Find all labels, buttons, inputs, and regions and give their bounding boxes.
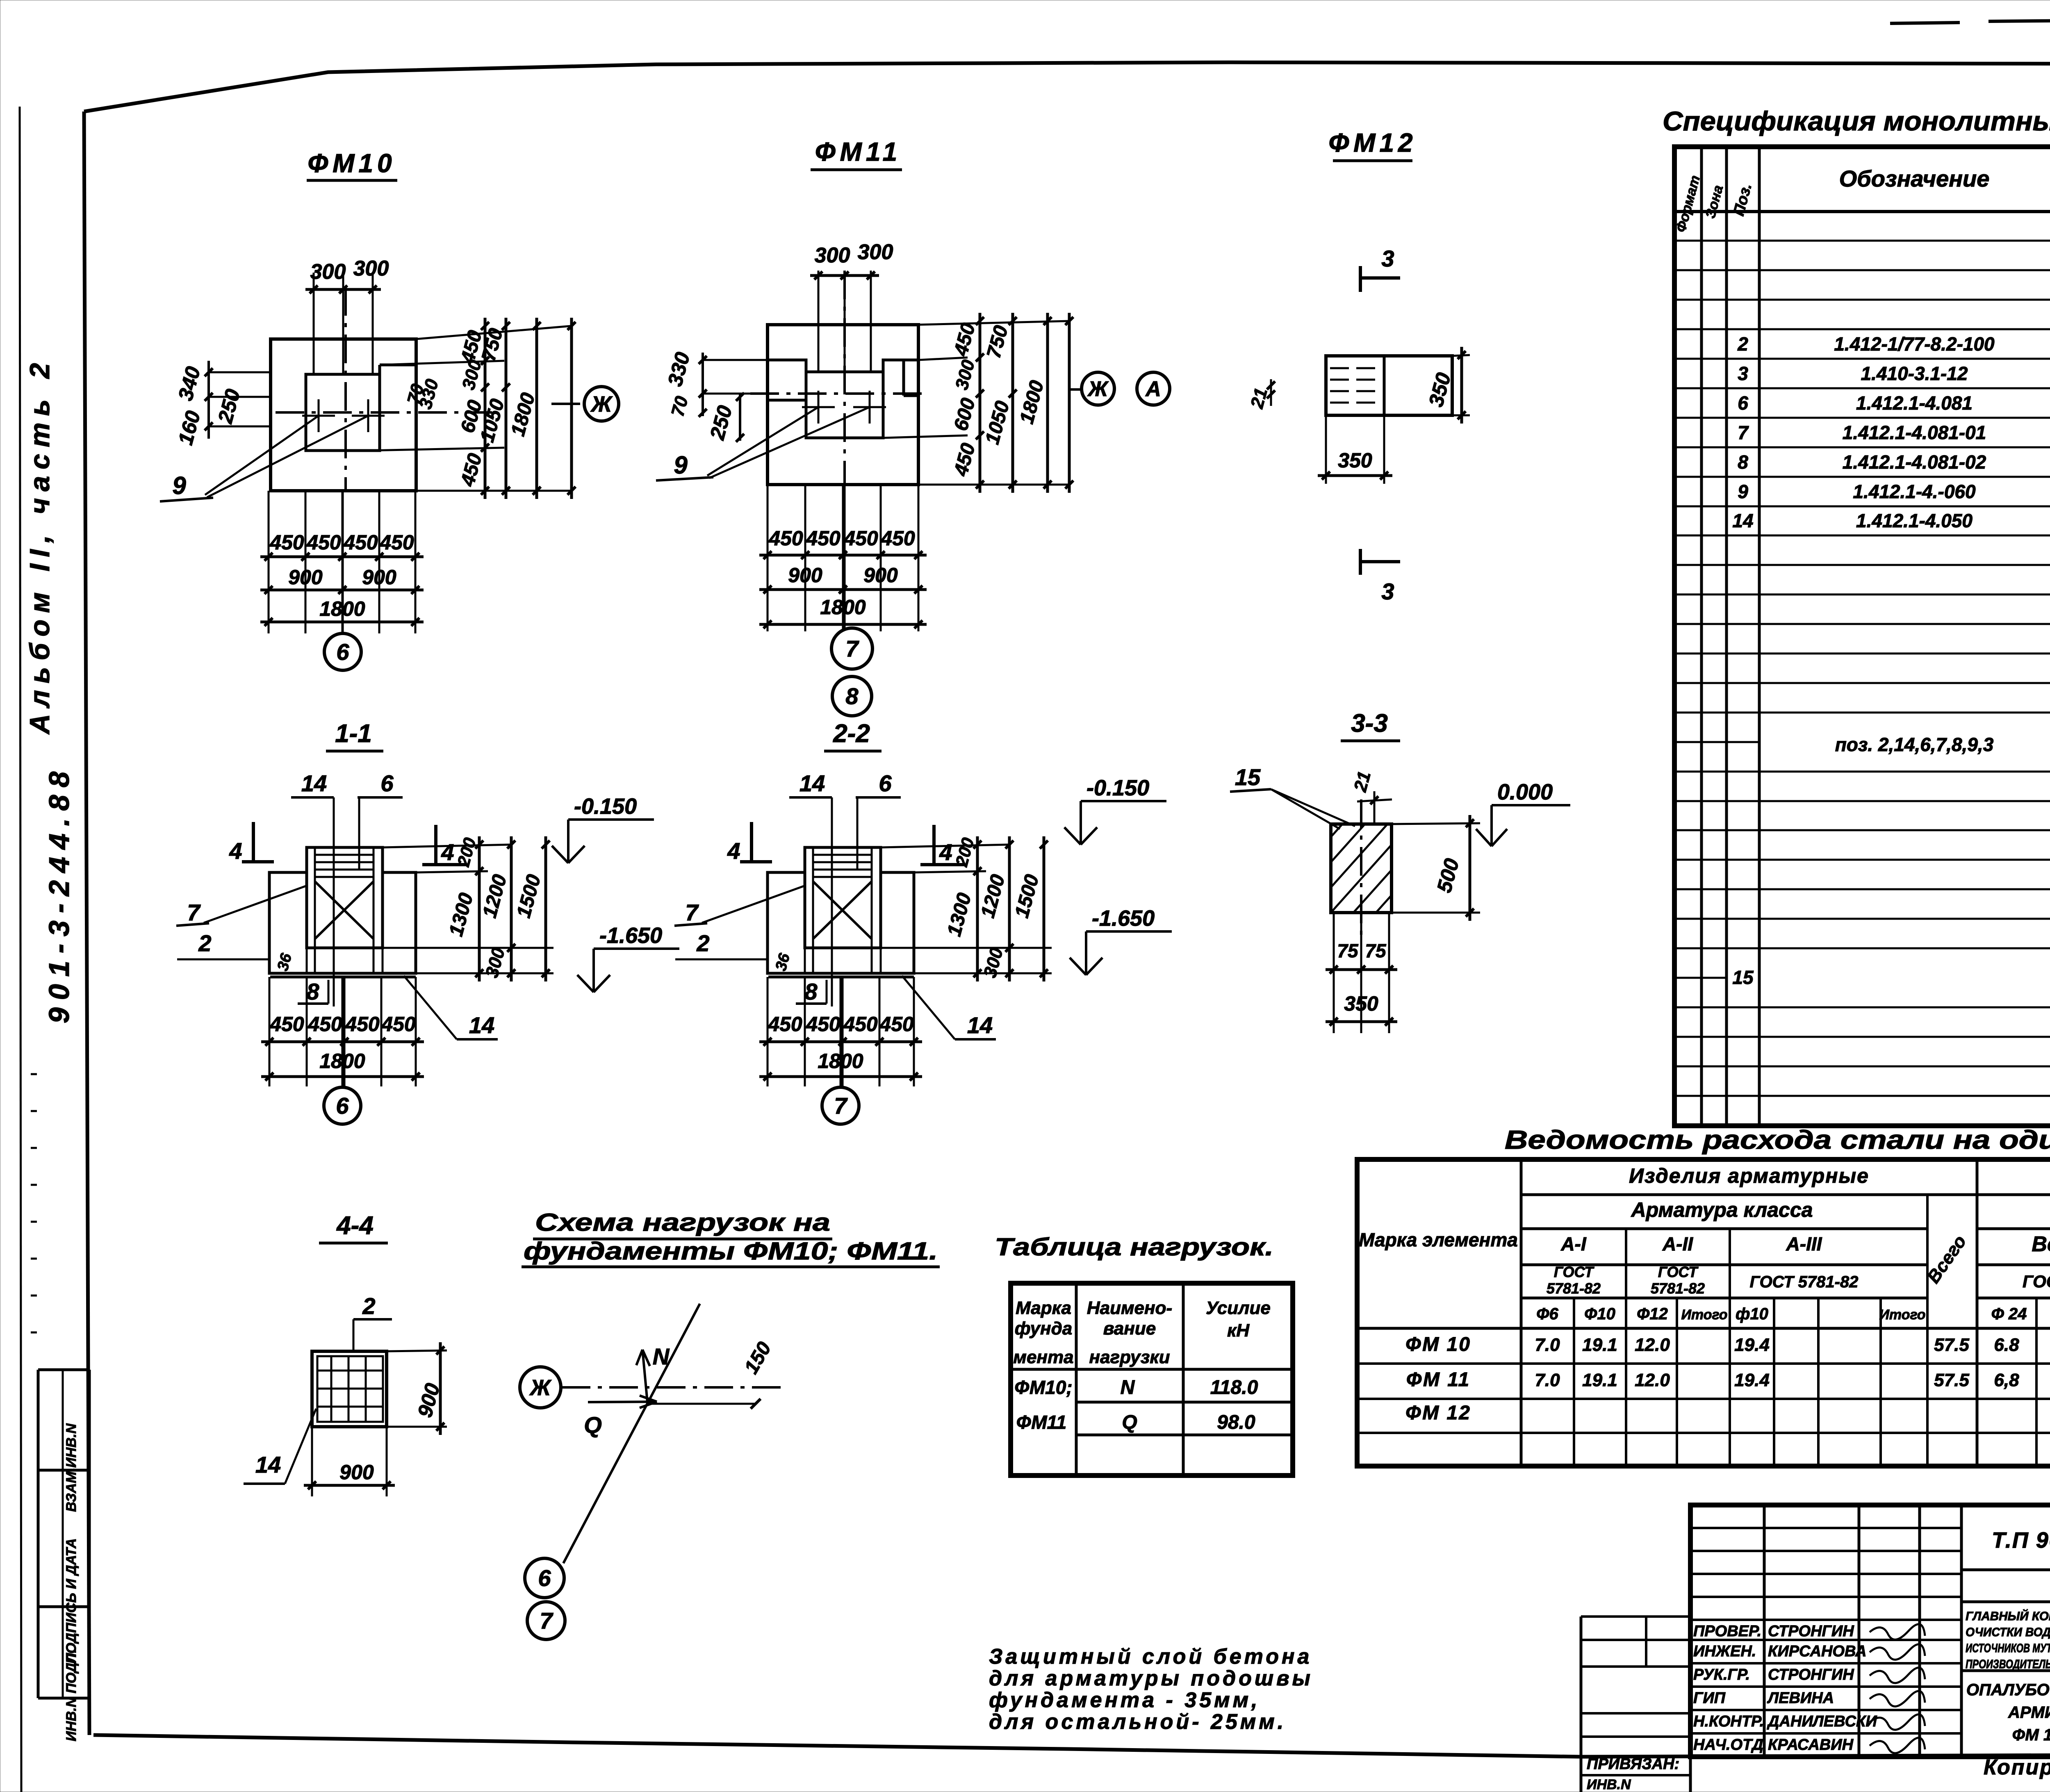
svg-text:Q: Q: [1122, 1412, 1137, 1433]
svg-text:ПРИВЯЗАН:: ПРИВЯЗАН:: [1587, 1756, 1679, 1773]
svg-text:ГИП: ГИП: [1693, 1690, 1726, 1707]
svg-text:2: 2: [1737, 333, 1748, 355]
svg-text:14: 14: [1732, 510, 1753, 531]
svg-text:450: 450: [343, 531, 378, 554]
svg-text:4: 4: [229, 838, 242, 864]
svg-text:9: 9: [172, 472, 186, 499]
svg-text:12.0: 12.0: [1635, 1335, 1670, 1355]
svg-text:8: 8: [1738, 451, 1748, 473]
svg-text:Ж: Ж: [529, 1375, 552, 1400]
svg-text:Итого: Итого: [1879, 1307, 1925, 1323]
svg-text:ФМ12: ФМ12: [1328, 128, 1417, 157]
svg-text:19.4: 19.4: [1734, 1370, 1770, 1390]
svg-text:450: 450: [806, 527, 840, 550]
svg-text:1.412.1-4.081-02: 1.412.1-4.081-02: [1843, 451, 1986, 473]
svg-text:6: 6: [1738, 392, 1748, 414]
svg-text:Итого: Итого: [1681, 1307, 1727, 1323]
svg-text:450: 450: [307, 1013, 342, 1036]
svg-text:57.5: 57.5: [1934, 1370, 1969, 1390]
svg-text:900: 900: [339, 1461, 374, 1484]
svg-text:КИРСАНОВА: КИРСАНОВА: [1768, 1643, 1866, 1660]
svg-text:ФМ 10 ÷ ФМ 12.: ФМ 10 ÷ ФМ 12.: [2012, 1726, 2050, 1744]
svg-text:ВстЗкп2: ВстЗкп2: [2032, 1232, 2050, 1256]
svg-text:Ф10: Ф10: [1584, 1305, 1615, 1323]
svg-text:3: 3: [1381, 578, 1394, 604]
svg-text:ФМ 11: ФМ 11: [1406, 1369, 1470, 1391]
svg-text:2: 2: [696, 930, 709, 956]
svg-text:2: 2: [362, 1293, 375, 1319]
svg-text:450: 450: [381, 1013, 416, 1036]
svg-text:450: 450: [768, 527, 803, 550]
svg-text:ПОДПИСЬ И ДАТА: ПОДПИСЬ И ДАТА: [64, 1538, 79, 1664]
svg-text:6: 6: [879, 770, 892, 796]
svg-text:450: 450: [345, 1013, 380, 1036]
svg-text:Q: Q: [584, 1412, 602, 1438]
svg-text:Альбом II, часть 2: Альбом II, часть 2: [24, 356, 55, 735]
svg-text:N: N: [1121, 1377, 1135, 1398]
svg-text:6: 6: [380, 770, 394, 796]
svg-text:А-I: А-I: [1560, 1233, 1587, 1255]
svg-text:900: 900: [362, 566, 396, 589]
svg-text:ГОСТ: ГОСТ: [1554, 1264, 1594, 1280]
svg-text:901-3-244.88: 901-3-244.88: [43, 764, 75, 1023]
svg-text:98.0: 98.0: [1217, 1412, 1255, 1433]
svg-text:1.412.1-4.081-01: 1.412.1-4.081-01: [1843, 422, 1986, 443]
svg-text:19.1: 19.1: [1582, 1335, 1617, 1355]
svg-text:РУК.ГР.: РУК.ГР.: [1693, 1666, 1750, 1683]
svg-text:14: 14: [967, 1012, 993, 1038]
svg-text:Ж: Ж: [590, 392, 613, 417]
svg-text:900: 900: [788, 564, 822, 587]
svg-text:фунда: фунда: [1015, 1318, 1073, 1339]
svg-text:4: 4: [727, 838, 740, 864]
svg-text:350: 350: [1344, 992, 1378, 1015]
svg-text:1800: 1800: [820, 596, 866, 619]
svg-text:ГОСТ: ГОСТ: [1658, 1264, 1699, 1280]
svg-text:вание: вание: [1103, 1318, 1156, 1339]
svg-text:А-III: А-III: [1786, 1233, 1822, 1255]
svg-text:-1.650: -1.650: [599, 923, 662, 948]
svg-text:7: 7: [1738, 422, 1749, 443]
svg-text:300: 300: [815, 244, 850, 267]
svg-text:75: 75: [1337, 940, 1359, 961]
svg-text:Н.КОНТР.: Н.КОНТР.: [1693, 1713, 1764, 1730]
svg-text:300: 300: [310, 260, 346, 284]
svg-text:6: 6: [336, 639, 349, 665]
svg-text:450: 450: [880, 527, 915, 550]
svg-text:350: 350: [1338, 449, 1372, 472]
svg-text:фундаменты ФМ10; ФМ11.: фундаменты ФМ10; ФМ11.: [524, 1237, 938, 1265]
svg-text:4-4: 4-4: [336, 1211, 374, 1240]
svg-text:ПРОВЕР.: ПРОВЕР.: [1693, 1623, 1761, 1640]
svg-text:9: 9: [1738, 481, 1748, 502]
svg-text:ФМ10: ФМ10: [307, 148, 396, 178]
svg-text:ВЗАМ.ИНВ.N: ВЗАМ.ИНВ.N: [64, 1423, 79, 1512]
svg-text:поз. 2,14,6,7,8,9,3: поз. 2,14,6,7,8,9,3: [1835, 734, 1994, 755]
svg-text:7.0: 7.0: [1535, 1370, 1560, 1390]
svg-text:Наимено-: Наимено-: [1087, 1298, 1172, 1318]
svg-text:900: 900: [863, 564, 898, 587]
svg-text:6: 6: [336, 1093, 349, 1119]
svg-text:СТРОНГИН: СТРОНГИН: [1768, 1623, 1854, 1640]
svg-text:7: 7: [540, 1608, 553, 1634]
svg-text:1.412-1/77-8.2-100: 1.412-1/77-8.2-100: [1834, 333, 1995, 355]
svg-text:3: 3: [1381, 246, 1394, 271]
svg-text:Изделия арматурные: Изделия арматурные: [1629, 1164, 1869, 1187]
svg-text:6: 6: [538, 1565, 551, 1591]
svg-text:ПРОИЗВОДИТЕЛЬНОСТЬЮ 125тыс.м3/: ПРОИЗВОДИТЕЛЬНОСТЬЮ 125тыс.м3/сут.: [1966, 1658, 2050, 1671]
svg-text:5781-82: 5781-82: [1651, 1280, 1705, 1297]
svg-text:ГЛАВНЫЙ КОРПУС ДЛЯ СТАНЦИИ: ГЛАВНЫЙ КОРПУС ДЛЯ СТАНЦИИ: [1966, 1609, 2050, 1623]
svg-text:ОПАЛУБОЧНЫЙ ЧЕРТЕЖ,: ОПАЛУБОЧНЫЙ ЧЕРТЕЖ,: [1966, 1680, 2050, 1699]
svg-text:7: 7: [845, 636, 859, 662]
svg-text:Ведомость расхода стали на оди: Ведомость расхода стали на один элемент,…: [1505, 1125, 2050, 1154]
svg-text:ФМ10;: ФМ10;: [1014, 1377, 1072, 1398]
svg-text:ГОСТ 2590-71: ГОСТ 2590-71: [2023, 1272, 2050, 1291]
svg-text:ОЧИСТКИ ВОДЫ ПОВЕРХНОСТНЫХ: ОЧИСТКИ ВОДЫ ПОВЕРХНОСТНЫХ: [1966, 1626, 2050, 1639]
svg-text:фундамента - 35мм,: фундамента - 35мм,: [989, 1688, 1260, 1712]
svg-text:450: 450: [306, 531, 341, 554]
svg-text:ГОСТ 5781-82: ГОСТ 5781-82: [1750, 1273, 1859, 1291]
svg-text:4: 4: [441, 839, 454, 865]
svg-text:ФМ11: ФМ11: [815, 137, 902, 166]
svg-text:57.5: 57.5: [1934, 1335, 1969, 1355]
svg-text:4: 4: [939, 839, 952, 865]
svg-text:450: 450: [269, 1013, 304, 1036]
svg-text:Ж: Ж: [1087, 377, 1109, 401]
svg-text:7: 7: [187, 899, 201, 925]
svg-text:Таблица нагрузок.: Таблица нагрузок.: [995, 1233, 1273, 1261]
svg-text:450: 450: [806, 1013, 840, 1036]
svg-text:15: 15: [1732, 967, 1754, 988]
svg-text:А-II: А-II: [1662, 1233, 1693, 1255]
svg-text:8: 8: [804, 979, 818, 1004]
svg-text:300: 300: [353, 257, 389, 280]
svg-text:Марка: Марка: [1016, 1298, 1071, 1318]
svg-text:-1.650: -1.650: [1092, 906, 1155, 931]
svg-text:ИНЖЕН.: ИНЖЕН.: [1693, 1643, 1756, 1660]
svg-text:ф10: ф10: [1736, 1305, 1768, 1323]
svg-text:ФМ11: ФМ11: [1016, 1412, 1067, 1433]
svg-text:ИНВ.N: ИНВ.N: [1587, 1777, 1631, 1792]
svg-text:19.1: 19.1: [1582, 1370, 1617, 1390]
svg-text:кН: кН: [1227, 1321, 1250, 1341]
svg-text:ЛЕВИНА: ЛЕВИНА: [1767, 1690, 1834, 1707]
svg-text:450: 450: [379, 531, 414, 554]
svg-text:12.0: 12.0: [1635, 1370, 1670, 1390]
svg-text:ИНВ.N ПОДЛ.: ИНВ.N ПОДЛ.: [64, 1649, 79, 1742]
svg-text:9: 9: [674, 451, 688, 479]
svg-text:14: 14: [255, 1452, 281, 1478]
svg-text:1.412.1-4.050: 1.412.1-4.050: [1856, 510, 1973, 531]
svg-text:5781-82: 5781-82: [1547, 1280, 1601, 1297]
svg-text:Ф12: Ф12: [1637, 1305, 1668, 1323]
svg-text:450: 450: [843, 1013, 878, 1036]
svg-text:300: 300: [858, 240, 893, 264]
svg-text:Марка элемента: Марка элемента: [1359, 1229, 1518, 1250]
svg-text:1.410-3.1-12: 1.410-3.1-12: [1861, 363, 1968, 384]
svg-text:118.0: 118.0: [1210, 1377, 1258, 1398]
svg-text:75: 75: [1365, 940, 1387, 961]
svg-text:-0.150: -0.150: [1086, 776, 1149, 800]
svg-text:6,8: 6,8: [1994, 1370, 2019, 1390]
svg-text:Копировал: Логинова: Копировал: Логинова: [1984, 1756, 2050, 1779]
svg-text:1.412.1-4.-060: 1.412.1-4.-060: [1853, 481, 1976, 502]
svg-text:2: 2: [198, 930, 211, 956]
svg-text:-0.150: -0.150: [574, 794, 637, 819]
svg-text:8: 8: [306, 979, 319, 1004]
svg-text:Ф6: Ф6: [1536, 1305, 1558, 1323]
svg-text:8: 8: [845, 683, 859, 709]
svg-text:900: 900: [288, 566, 323, 589]
svg-text:Усилие: Усилие: [1206, 1298, 1271, 1318]
svg-text:Ф 24: Ф 24: [1991, 1305, 2027, 1323]
svg-text:ДАНИЛЕВСКИ: ДАНИЛЕВСКИ: [1767, 1713, 1877, 1730]
svg-text:Обозначение: Обозначение: [1839, 166, 1990, 191]
svg-text:2-2: 2-2: [833, 720, 870, 748]
svg-text:450: 450: [269, 531, 304, 554]
svg-text:19.4: 19.4: [1734, 1335, 1770, 1355]
svg-text:450: 450: [879, 1013, 914, 1036]
svg-text:450: 450: [768, 1013, 802, 1036]
svg-text:мента: мента: [1013, 1347, 1073, 1367]
svg-text:14: 14: [301, 770, 327, 796]
svg-text:для остальной- 25мм.: для остальной- 25мм.: [989, 1710, 1286, 1734]
svg-text:Спецификация монолитных фундам: Спецификация монолитных фундаментов Фм10…: [1663, 106, 2050, 136]
svg-text:0.000: 0.000: [1497, 780, 1553, 804]
svg-text:14: 14: [469, 1012, 494, 1038]
svg-text:АРМИРОВАНИЕ: АРМИРОВАНИЕ: [2008, 1703, 2050, 1721]
svg-text:КРАСАВИН: КРАСАВИН: [1768, 1736, 1854, 1753]
svg-text:3: 3: [1738, 363, 1748, 384]
svg-text:7.0: 7.0: [1535, 1335, 1560, 1355]
svg-text:N: N: [653, 1343, 670, 1369]
svg-text:А: А: [1145, 377, 1161, 401]
svg-text:ИСТОЧНИКОВ МУТНОСТЬЮ 1500тыс.м: ИСТОЧНИКОВ МУТНОСТЬЮ 1500тыс.м3/сут.: [1966, 1642, 2050, 1655]
svg-text:15: 15: [1235, 764, 1261, 790]
svg-text:14: 14: [799, 770, 825, 796]
svg-text:Т.П 901-3-244.88: Т.П 901-3-244.88: [1992, 1528, 2050, 1553]
svg-text:6.8: 6.8: [1994, 1335, 2019, 1355]
svg-text:1.412.1-4.081: 1.412.1-4.081: [1856, 392, 1973, 414]
svg-text:для арматуры подошвы: для арматуры подошвы: [989, 1667, 1313, 1690]
svg-text:ФМ 12: ФМ 12: [1405, 1402, 1471, 1424]
svg-text:7: 7: [834, 1093, 848, 1119]
svg-text:Схема нагрузок на: Схема нагрузок на: [535, 1209, 830, 1236]
svg-text:3-3: 3-3: [1351, 709, 1388, 738]
svg-text:СТРОНГИН: СТРОНГИН: [1768, 1666, 1854, 1683]
svg-text:7: 7: [685, 899, 699, 925]
svg-text:1-1: 1-1: [335, 720, 372, 748]
svg-text:нагрузки: нагрузки: [1089, 1347, 1170, 1367]
svg-text:НАЧ.ОТД: НАЧ.ОТД: [1693, 1736, 1763, 1753]
svg-text:450: 450: [843, 527, 878, 550]
svg-text:Защитный слой бетона: Защитный слой бетона: [989, 1645, 1312, 1669]
svg-text:Арматура класса: Арматура класса: [1631, 1198, 1813, 1221]
svg-text:ФМ 10: ФМ 10: [1405, 1334, 1471, 1355]
